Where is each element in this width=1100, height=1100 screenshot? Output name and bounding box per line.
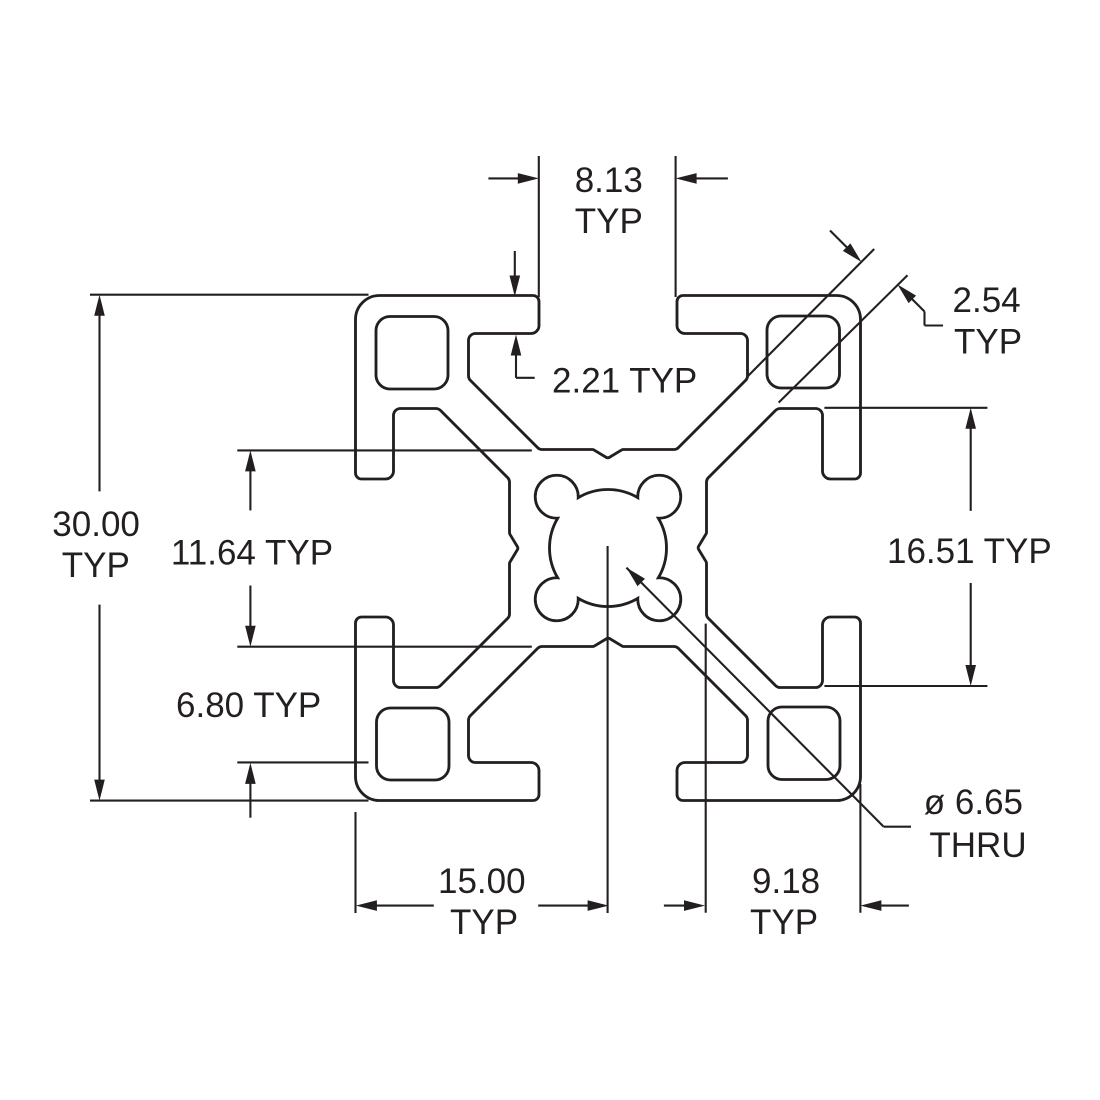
center bore (X-shaped through hole)	[535, 475, 681, 621]
svg-text:TYP: TYP	[954, 323, 1022, 362]
corner screw-boss hole top-right	[767, 316, 840, 388]
dimension 15.00 TYP right arrow	[538, 905, 589, 907]
svg-text:TYP: TYP	[575, 202, 643, 241]
dimension 2.54 TYP lower arrow and leader	[898, 285, 917, 304]
dimension 2.54 TYP extension line 2	[779, 275, 908, 402]
svg-text:30.00: 30.00	[52, 505, 140, 544]
dimension 16.51 TYP extension line bottom	[824, 685, 987, 687]
svg-text:8.13: 8.13	[575, 161, 643, 200]
svg-text:TYP: TYP	[750, 903, 818, 942]
svg-text:2.54: 2.54	[953, 281, 1021, 320]
dimension 15.00 TYP left arrow	[356, 900, 377, 911]
dimension 2.54 TYP extension line 1	[748, 249, 874, 376]
dimension 11.64 TYP dimension line with arrows	[249, 468, 251, 510]
svg-text:TYP: TYP	[62, 546, 130, 585]
bore diameter leader line	[626, 568, 883, 827]
svg-text:9.18: 9.18	[752, 862, 820, 901]
dimension 2.54 TYP upper arrow	[830, 231, 850, 251]
dimension 8.13 TYP extension line left	[538, 156, 540, 297]
svg-text:6.80 TYP: 6.80 TYP	[176, 686, 321, 725]
svg-text:11.64 TYP: 11.64 TYP	[171, 534, 333, 573]
dimension 6.80 TYP extension line	[237, 761, 368, 763]
dimension 11.64 TYP extension line bottom	[237, 646, 532, 648]
dimension 8.13 TYP extension line right	[675, 156, 677, 297]
dimension 2.21 TYP lower arrow and leader	[515, 352, 517, 378]
extrusion profile outline	[356, 296, 861, 801]
svg-text:15.00: 15.00	[438, 862, 526, 901]
dimension 6.80 TYP arrow	[249, 780, 251, 818]
dimension 8.13 TYP right arrow	[694, 177, 728, 179]
svg-text:THRU: THRU	[929, 826, 1026, 865]
dimension 11.64 TYP extension line top	[237, 449, 532, 451]
dimension 9.18 TYP extension line left	[705, 624, 707, 913]
dimension 30.00 TYP extension line bottom	[90, 800, 369, 802]
svg-text:ø 6.65: ø 6.65	[924, 783, 1023, 822]
dimension 9.18 TYP left arrow	[664, 905, 685, 907]
dimension 30.00 TYP dimension line with arrows	[98, 313, 100, 491]
dimension 30.00 TYP extension line top	[90, 294, 369, 296]
corner screw-boss hole top-left	[376, 317, 448, 390]
svg-text:16.51 TYP: 16.51 TYP	[887, 532, 1052, 571]
svg-text:2.21 TYP: 2.21 TYP	[552, 362, 697, 401]
dimension 9.18 TYP extension line right	[859, 784, 861, 913]
dimension 8.13 TYP left arrow	[488, 177, 520, 179]
corner screw-boss hole bottom-right	[768, 707, 840, 780]
corner screw-boss hole bottom-left	[377, 708, 450, 780]
dimension 15.00 TYP extension line left	[354, 812, 356, 913]
vertical centerline	[607, 546, 609, 913]
dimension 16.51 TYP extension line top	[824, 407, 987, 409]
dimension 2.21 TYP upper arrow	[514, 251, 516, 280]
dimension 16.51 TYP dimension line with arrows	[970, 426, 972, 511]
svg-text:TYP: TYP	[450, 903, 518, 942]
dimension 9.18 TYP right arrow	[860, 900, 881, 911]
